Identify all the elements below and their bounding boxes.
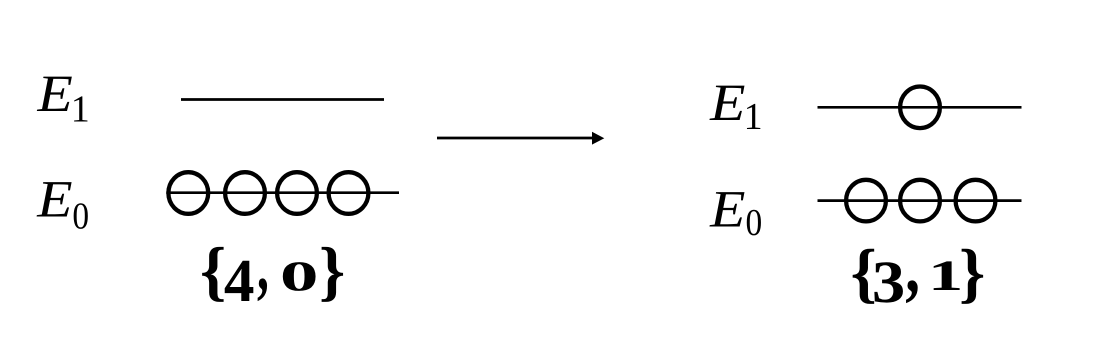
arrow between diagrams bbox=[437, 137, 593, 140]
label {4, 0} occupation numbers (left) bbox=[200, 224, 345, 315]
svg-text:E: E bbox=[709, 74, 745, 132]
particle circle 2 on E0 (left) bbox=[225, 172, 265, 214]
svg-text:1: 1 bbox=[744, 96, 763, 138]
svg-text:,: , bbox=[905, 226, 920, 309]
particle circle 4 on E0 (left) bbox=[329, 172, 369, 214]
wire: E1 energy level line (left) bbox=[181, 98, 384, 101]
svg-text:0: 0 bbox=[280, 254, 319, 301]
svg-text:4: 4 bbox=[224, 247, 255, 315]
wire: E0 energy level line (right) bbox=[818, 199, 1022, 202]
svg-text:1: 1 bbox=[928, 252, 963, 300]
node E1 label (left) bbox=[36, 65, 89, 130]
label {3, 1} occupation numbers (right) bbox=[851, 226, 986, 316]
svg-text:1: 1 bbox=[71, 89, 90, 131]
particle circle 1 on E0 (left) bbox=[168, 172, 208, 214]
svg-text:0: 0 bbox=[746, 202, 763, 244]
node E0 label (left) bbox=[36, 171, 89, 238]
svg-text:3: 3 bbox=[872, 249, 905, 316]
svg-text:E: E bbox=[709, 181, 745, 239]
particle circle 3 on E0 (right) bbox=[956, 180, 996, 222]
svg-text:E: E bbox=[36, 171, 72, 229]
particle circle 1 on E0 (right) bbox=[846, 180, 886, 222]
svg-text:}: } bbox=[959, 237, 985, 310]
svg-text:0: 0 bbox=[72, 195, 89, 237]
wire: E0 energy level line (left) bbox=[166, 191, 399, 194]
node E0 label (right) bbox=[709, 181, 762, 245]
particle circle 3 on E0 (left) bbox=[277, 172, 317, 214]
svg-text:E: E bbox=[36, 65, 72, 123]
particle circle on E1 (right) bbox=[900, 87, 940, 129]
node E1 label (right) bbox=[709, 74, 763, 138]
svg-text:{: { bbox=[200, 235, 226, 308]
svg-text:}: } bbox=[319, 235, 345, 308]
particle circle 2 on E0 (right) bbox=[900, 180, 940, 222]
svg-text:,: , bbox=[257, 224, 269, 307]
wire: E1 energy level line (right) bbox=[818, 106, 1022, 109]
